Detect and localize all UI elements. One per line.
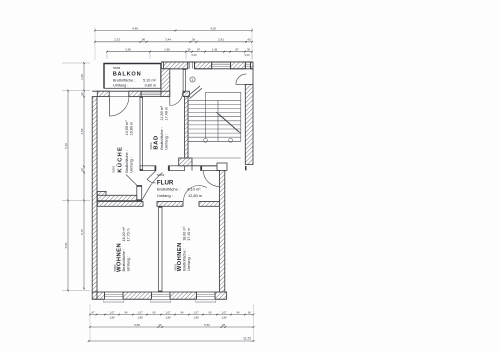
svg-text:1,98: 1,98 <box>164 48 170 52</box>
svg-text:2,33: 2,33 <box>114 38 120 42</box>
svg-text:4,48: 4,48 <box>132 26 138 30</box>
svg-text:Bruttofläche :: Bruttofläche : <box>125 150 129 172</box>
svg-text:5,56: 5,56 <box>134 323 140 327</box>
svg-text:5,86: 5,86 <box>64 242 68 248</box>
svg-text:5,20: 5,20 <box>244 53 250 57</box>
svg-text:Umfang :: Umfang : <box>130 157 134 172</box>
svg-text:1,88: 1,88 <box>137 316 143 320</box>
svg-text:18,00 m²: 18,00 m² <box>182 226 186 241</box>
svg-text:1: 1 <box>192 78 194 82</box>
svg-text:5/005: 5/005 <box>113 66 121 70</box>
svg-text:Umfang :: Umfang : <box>126 256 130 271</box>
svg-text:16,80 m: 16,80 m <box>130 122 134 136</box>
svg-text:1,88: 1,88 <box>109 316 115 320</box>
svg-text:FLUR: FLUR <box>157 179 174 186</box>
svg-text:36: 36 <box>192 38 196 42</box>
svg-text:2,81: 2,81 <box>218 38 224 42</box>
svg-text:1,07: 1,07 <box>165 310 171 314</box>
svg-text:87: 87 <box>235 48 239 52</box>
svg-text:11,50 m²: 11,50 m² <box>160 105 164 120</box>
svg-text:1,07: 1,07 <box>221 310 227 314</box>
svg-text:26: 26 <box>222 323 226 327</box>
svg-text:KÜCHE: KÜCHE <box>116 146 123 173</box>
svg-text:36: 36 <box>247 48 251 52</box>
svg-text:3,48: 3,48 <box>125 48 131 52</box>
svg-text:43: 43 <box>247 38 251 42</box>
svg-text:96: 96 <box>142 38 146 42</box>
svg-text:3,44: 3,44 <box>165 38 171 42</box>
svg-text:13,90 m²: 13,90 m² <box>125 120 129 136</box>
svg-text:Bruttofläche :: Bruttofläche : <box>160 127 164 149</box>
svg-text:Bruttofläche :: Bruttofläche : <box>157 187 180 192</box>
svg-text:Bruttofläche :: Bruttofläche : <box>122 249 126 271</box>
svg-text:11,23: 11,23 <box>243 337 251 341</box>
svg-text:17,70 m: 17,70 m <box>126 228 130 241</box>
svg-text:5/001: 5/001 <box>111 165 115 172</box>
svg-text:4,26: 4,26 <box>210 26 216 30</box>
svg-text:Umfang :: Umfang : <box>187 255 191 270</box>
svg-text:1,88: 1,88 <box>165 316 171 320</box>
svg-text:9,80 m: 9,80 m <box>145 83 157 87</box>
svg-text:5,10 m²: 5,10 m² <box>143 79 157 83</box>
svg-text:5,26: 5,26 <box>191 53 197 57</box>
svg-text:1,07: 1,07 <box>137 310 143 314</box>
svg-text:8,10 m²: 8,10 m² <box>187 187 201 192</box>
svg-text:17,40 m: 17,40 m <box>165 107 169 121</box>
svg-text:5/004: 5/004 <box>149 142 153 149</box>
svg-text:5,76: 5,76 <box>80 229 84 235</box>
svg-text:1,07: 1,07 <box>193 310 199 314</box>
svg-text:26: 26 <box>158 323 162 327</box>
svg-text:Umfang :: Umfang : <box>157 193 173 198</box>
svg-text:BAD: BAD <box>153 135 159 149</box>
svg-text:1,88: 1,88 <box>221 316 227 320</box>
svg-text:42: 42 <box>80 92 84 96</box>
svg-text:Umfang :: Umfang : <box>165 134 169 149</box>
svg-text:1,88: 1,88 <box>193 316 199 320</box>
svg-text:5,10: 5,10 <box>64 143 68 149</box>
svg-text:17,40 m: 17,40 m <box>187 228 191 241</box>
svg-text:1,36: 1,36 <box>212 48 218 52</box>
svg-text:Umfang :: Umfang : <box>113 83 128 87</box>
svg-text:1,07: 1,07 <box>109 310 115 314</box>
svg-text:1,08: 1,08 <box>80 74 84 80</box>
svg-text:18,20 m²: 18,20 m² <box>122 226 126 241</box>
svg-text:87: 87 <box>197 48 201 52</box>
svg-text:26: 26 <box>80 168 84 172</box>
svg-text:Bruttofläche :: Bruttofläche : <box>182 248 186 270</box>
svg-text:5/003: 5/003 <box>157 173 164 177</box>
svg-text:BALKON: BALKON <box>113 71 142 77</box>
svg-text:5,52: 5,52 <box>204 323 210 327</box>
svg-text:12,80 m: 12,80 m <box>188 193 202 198</box>
svg-text:36: 36 <box>187 48 191 52</box>
svg-text:4,50: 4,50 <box>80 128 84 134</box>
svg-text:Bruttofläche :: Bruttofläche : <box>113 79 135 83</box>
